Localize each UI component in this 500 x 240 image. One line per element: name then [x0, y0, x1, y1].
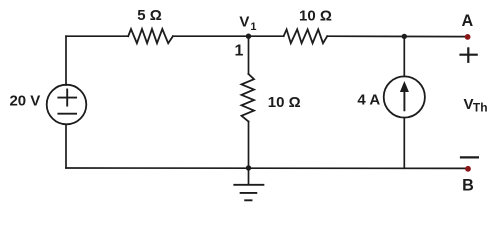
current source arrow shaft [403, 89, 405, 110]
resistor R1 5 ohm zigzag [128, 29, 173, 43]
node junction dot top of current source [402, 34, 407, 39]
terminal minus sign near B [461, 156, 478, 158]
wire middle vertical top [248, 36, 250, 74]
node junction dot ground [246, 165, 251, 170]
svg-text:4 A: 4 A [357, 91, 380, 108]
terminal A dot [465, 34, 471, 40]
wire top-left segment [66, 35, 128, 37]
wire left vertical top [65, 36, 67, 85]
svg-text:10 Ω: 10 Ω [299, 8, 332, 25]
svg-text:5 Ω: 5 Ω [137, 7, 162, 24]
wire left vertical bottom [65, 124, 67, 168]
svg-text:10 Ω: 10 Ω [268, 94, 301, 111]
svg-text:V: V [239, 13, 249, 30]
wire top-middle segment [173, 35, 284, 37]
voltage source plus sign [58, 90, 76, 106]
ground symbol bars [234, 185, 263, 201]
voltage source VS 20V circle [47, 85, 87, 125]
terminal plus sign near A [461, 48, 477, 61]
current source arrowhead [400, 81, 409, 92]
node V1 junction dot [246, 34, 251, 39]
wire right vertical top [403, 36, 405, 76]
resistor R3 10 ohm vertical zigzag [242, 74, 255, 122]
svg-text:Th: Th [473, 101, 488, 115]
voltage source minus sign [58, 113, 76, 115]
svg-text:1: 1 [235, 42, 244, 59]
resistor R2 10 ohm zigzag [284, 29, 328, 43]
wire bottom horizontal [66, 167, 466, 169]
wire right vertical bottom [403, 118, 405, 169]
wire middle vertical bottom [248, 122, 250, 169]
svg-text:B: B [462, 177, 474, 195]
ground stub wire [248, 168, 250, 184]
svg-text:20 V: 20 V [9, 92, 40, 109]
terminal B dot [465, 166, 471, 172]
svg-text:A: A [461, 12, 473, 30]
wire top-right segment [327, 35, 465, 37]
current source IS 4A circle [384, 76, 425, 117]
svg-text:1: 1 [250, 21, 256, 33]
